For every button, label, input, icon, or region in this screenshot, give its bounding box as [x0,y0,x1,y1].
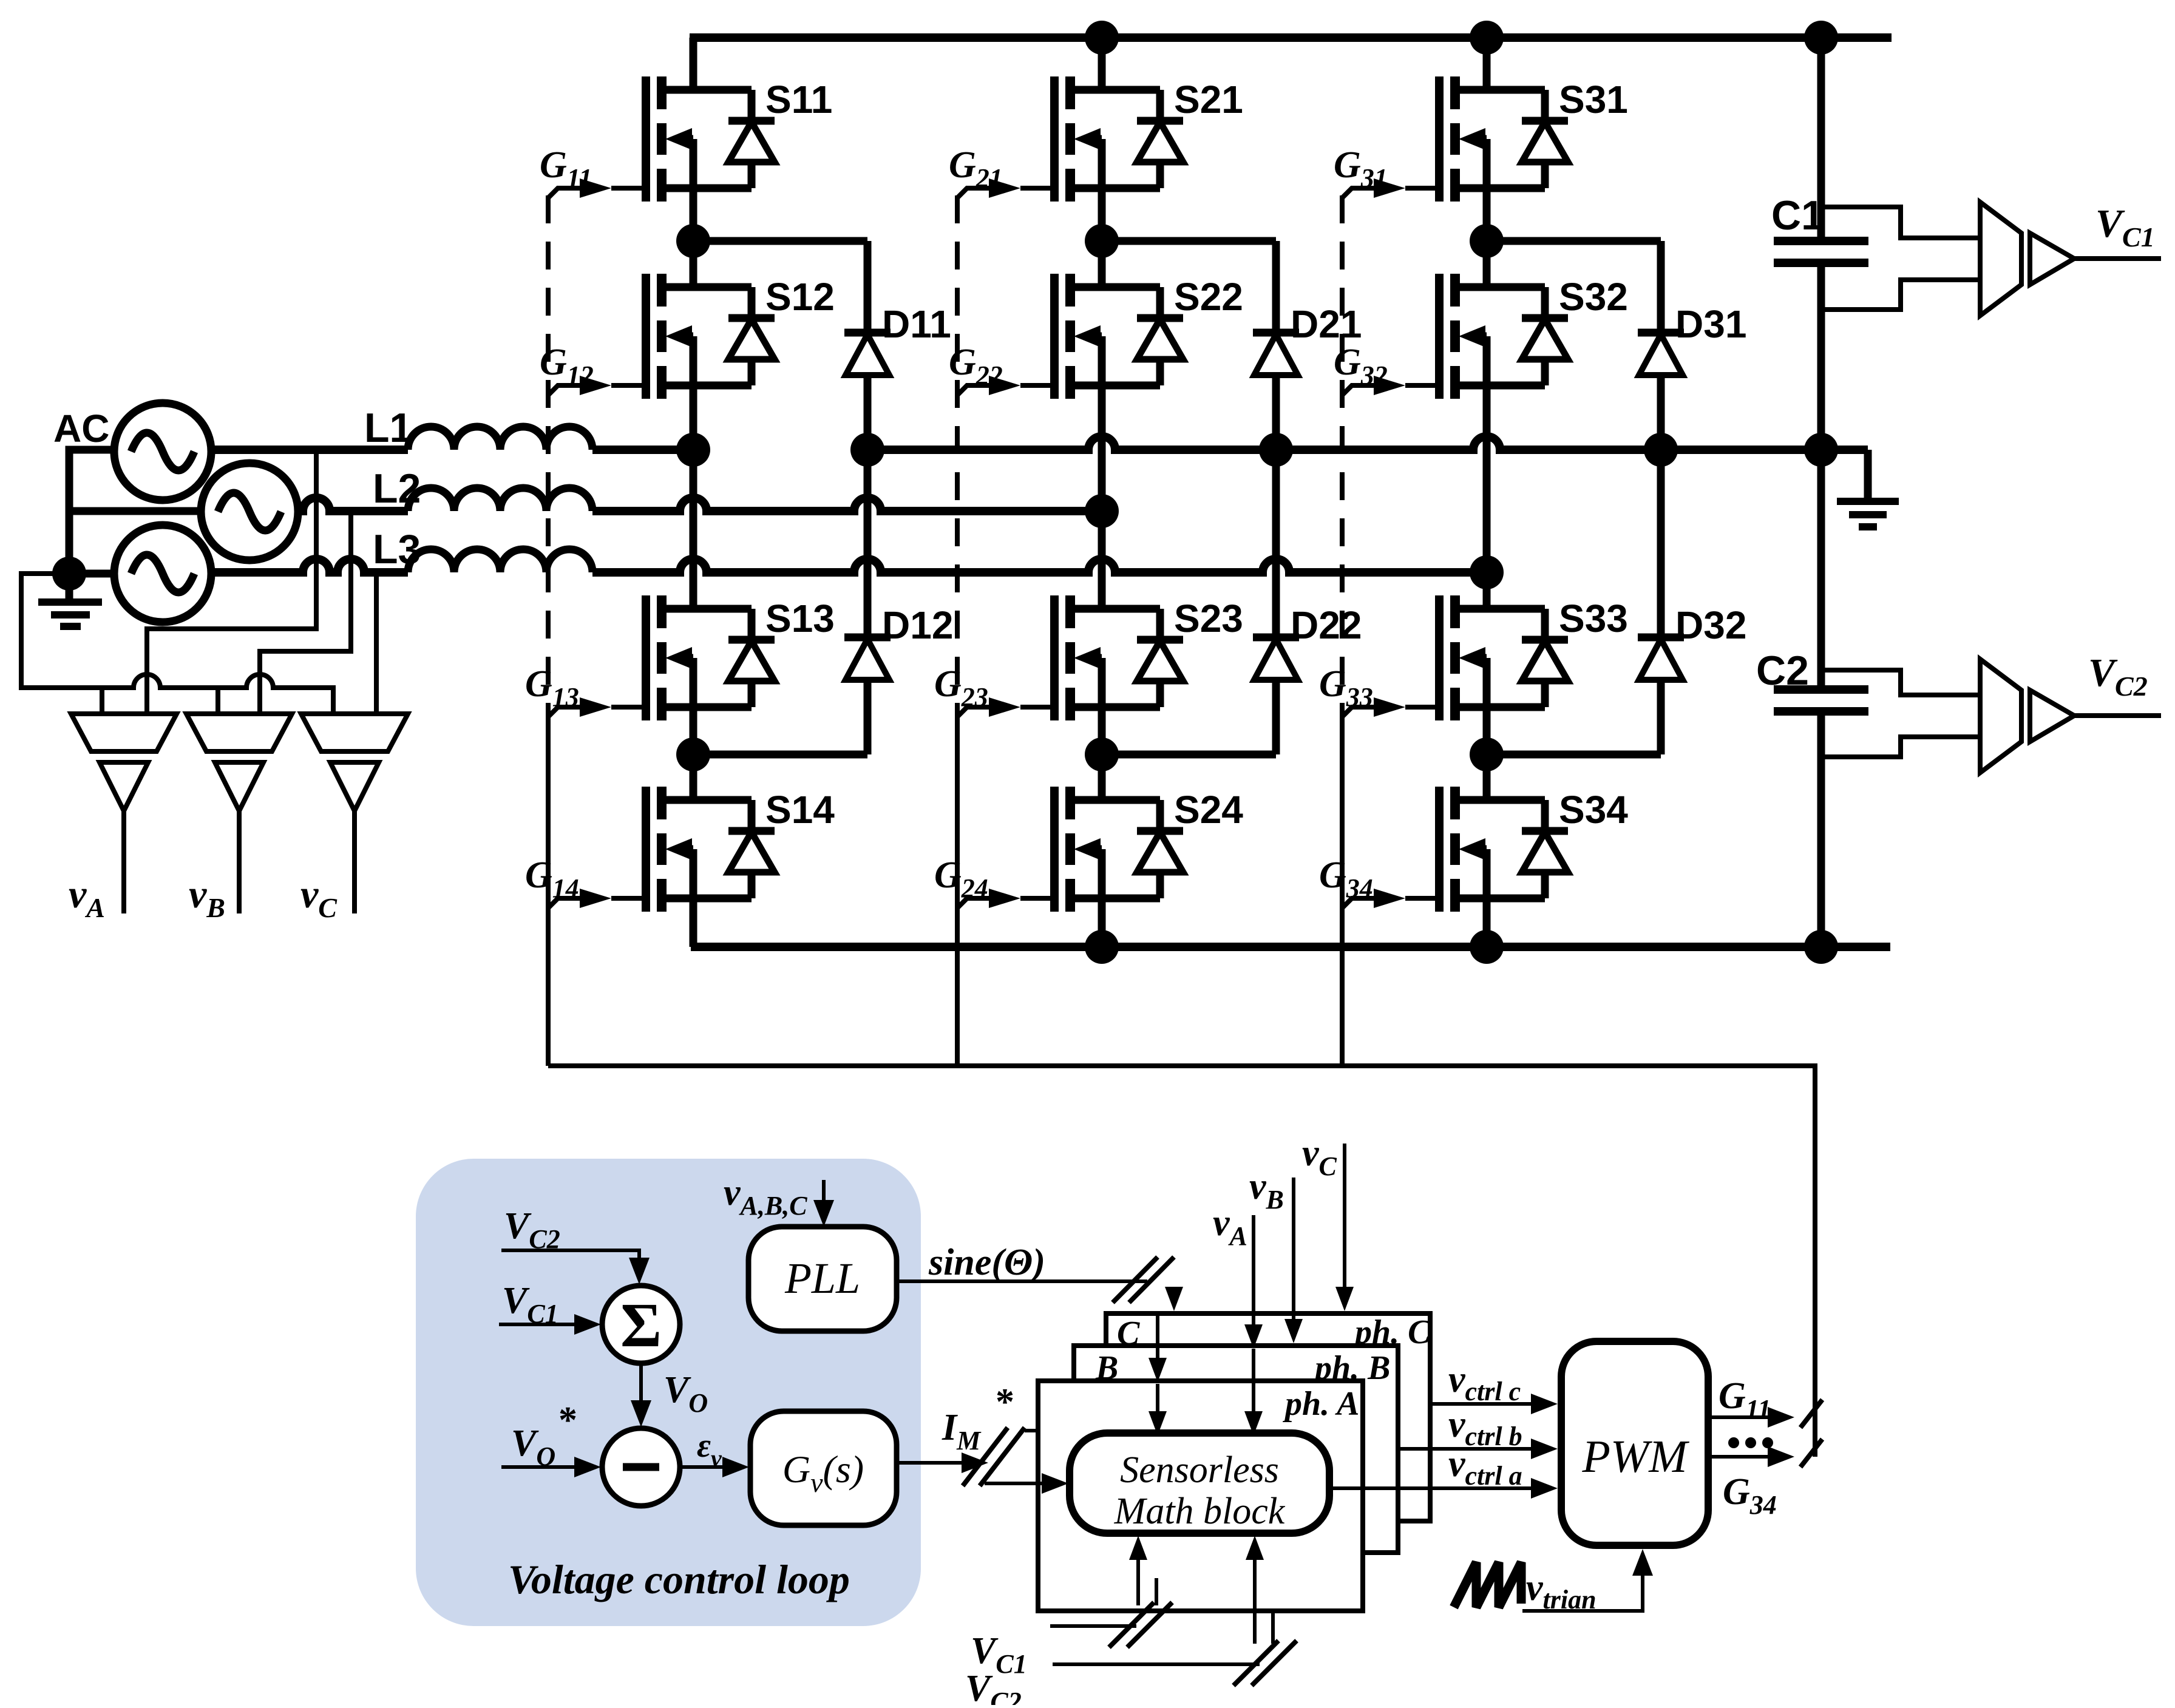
wire leg 1 vertical [690,38,697,947]
wire VC2 output [2074,713,2161,718]
wire gate drive G24 [957,898,995,908]
transistor S32 [1439,274,1568,399]
node C leg bottom bus [1804,930,1838,964]
node leg 3 top bus [1470,21,1504,55]
wire VC1 output [2074,256,2161,261]
wire IM into Sensorless block [985,1482,1045,1485]
svg-text:S24: S24 [1174,788,1243,832]
label dots [1728,1437,1739,1448]
diode D12 [844,637,891,680]
block phase C frame [1106,1313,1430,1521]
wire neutral sense line [21,574,333,714]
svg-text:Sensorless: Sensorless [1120,1449,1279,1491]
svg-text:C2: C2 [1756,648,1809,694]
wire sum to subtractor (VO) [639,1363,643,1401]
svg-text:D21: D21 [1291,302,1362,346]
wire bottom DC bus [691,943,1890,951]
wire gate bundle G1x (dashed) [546,195,551,707]
wire vB [1292,1178,1295,1324]
wire gate drive G21 [957,188,995,198]
wire DC midpoint rail [867,436,1868,450]
wire gate drive G32 [1342,385,1380,395]
voltage control loop shaded box [416,1159,921,1626]
block phase B frame [1074,1346,1398,1553]
svg-text:S34: S34 [1559,788,1628,832]
wire VC1 feed [1050,1624,1136,1628]
wire gate drive G11 [548,188,586,198]
svg-text:S23: S23 [1174,597,1243,640]
node leg 2 top bus [1085,21,1119,55]
wire vC [1343,1144,1346,1293]
buffer VC1 [2030,233,2074,285]
svg-text:S32: S32 [1559,275,1628,319]
wire gate drive G14 [548,898,586,908]
ground (source neutral) [66,574,73,600]
wire gate drive G22 [957,385,995,395]
node leg 3 lower (S33/S34) [1470,737,1504,771]
buffer phase C [330,762,379,811]
svg-text:AC: AC [53,407,109,450]
ground (DC midpoint) [1837,498,1899,505]
wire gate bundle G1x (solid) [546,707,551,1066]
wire vctrl a [1329,1486,1535,1490]
wire vA sense tap [147,450,316,714]
wire neutral stub to sensor A [100,688,104,714]
node leg 3 upper (S31/S32) [1470,224,1504,258]
transistor S14 [646,787,775,912]
wire VC2 feed [1053,1662,1260,1666]
bus marker VC1 [1109,1602,1172,1647]
svg-text:D31: D31 [1675,302,1746,346]
buffer phase B [215,762,263,811]
summer [602,1286,680,1363]
wire vtrian into PWM [1522,1573,1643,1611]
wire clamp diode leg 2 vertical [1272,241,1280,754]
subtractor [602,1428,680,1506]
block PLL [748,1227,897,1331]
wire midpoint rail to ground [1864,450,1872,499]
node leg 3 bottom bus [1470,930,1504,964]
wire vctrl b [1398,1447,1535,1451]
wire PWM G11 output [1708,1415,1771,1419]
wire sine distribution [1172,1287,1176,1295]
node leg 2 upper (S21/S22) [1085,224,1119,258]
svg-text:S11: S11 [765,78,832,121]
svg-text:sine(Θ): sine(Θ) [928,1242,1045,1283]
wire leg 2 vertical [1098,38,1106,947]
svg-text:*: * [558,1400,577,1441]
wire clamp diode leg 1 vertical [864,241,872,754]
svg-text:S14: S14 [765,788,835,832]
svg-text:S33: S33 [1559,597,1628,640]
wire node to D32 [1487,751,1661,759]
inductor L1 [408,427,592,450]
svg-text:S21: S21 [1174,78,1243,121]
block phase A frame [1038,1381,1363,1611]
wire clamp diode leg 3 vertical [1657,241,1665,754]
svg-text:L1: L1 [364,405,412,451]
wire phase A source to inductor [211,446,408,454]
wire gate bundle G3x (dashed) [1340,195,1345,707]
svg-text:Voltage control loop: Voltage control loop [508,1556,850,1602]
wire vctrl c [1430,1402,1535,1406]
wire gate drive G34 [1342,898,1380,908]
wire vA output [121,811,126,913]
AC source VA [114,403,211,500]
wire vB output [237,811,242,913]
svg-text:D12: D12 [882,603,953,647]
wire leg 3 vertical [1483,38,1491,947]
wire C sense taps VC1 [1824,207,1978,238]
bus marker IM [963,1428,1025,1486]
wire VC1 to sum [499,1323,577,1326]
AC source VC [114,525,211,622]
wire IM* to math blocks [897,1461,965,1465]
wire phase C rail (inductor L3 to leg 3, hops) [592,559,1487,572]
wire sine distribution into layers [1156,1313,1159,1366]
capacitor C1 [1774,38,1868,450]
wire gate feedback bus [548,1066,1815,1457]
transistor S34 [1439,787,1568,912]
svg-text:D32: D32 [1675,603,1746,647]
transistor S31 [1439,76,1568,202]
wire vA [1252,1215,1255,1329]
transistor S21 [1054,76,1183,202]
diode D32 [1638,637,1684,680]
AC source VB [201,463,298,560]
wire vC output [352,811,357,913]
svg-text:S12: S12 [765,275,835,319]
wire phase A rail (inductor L1 to leg 1) [592,446,693,454]
svg-text:S13: S13 [765,597,835,640]
wire node to D22 [1102,751,1276,759]
wire gate drive G13 [548,707,586,717]
wire gate bundle G2x (solid) [955,707,960,1066]
node leg 1 upper (S11/S12) [676,224,710,258]
bus marker VC2 [1233,1641,1297,1686]
wire PWM G34 output [1708,1455,1771,1459]
wire gate drive G33 [1342,707,1380,717]
wire node to D21 [1102,237,1276,245]
transistor S24 [1054,787,1183,912]
svg-text:ph. A: ph. A [1283,1385,1359,1423]
wire VC2 to sum [501,1250,639,1260]
diode D31 [1638,333,1684,375]
wire node to D11 [693,237,867,245]
node C midpoint [1804,433,1838,467]
sawtooth carrier symbol [1454,1562,1521,1607]
transistor S22 [1054,274,1183,399]
diode D21 [1253,333,1299,375]
svg-text:C1: C1 [1771,192,1824,239]
wire vB sense tap [260,511,351,714]
wire gate drive G23 [957,707,995,717]
wire top DC bus [690,33,1892,42]
wire phase B source to inductor (hops over vA tap) [298,498,408,511]
wire gate bundle G3x (solid) [1340,707,1345,1066]
svg-text:PLL: PLL [784,1254,860,1303]
buffer phase A [100,762,148,811]
svg-text:L2: L2 [373,466,421,512]
svg-text:D11: D11 [882,302,951,346]
node clamp leg 1 to midpoint rail [850,433,884,467]
svg-text:*: * [996,1381,1014,1423]
wire VO* to subtractor [501,1465,577,1469]
wire neutral stub to sensor B [215,688,220,714]
svg-text:PWM: PWM [1581,1431,1689,1482]
inductor L2 [408,488,592,511]
node leg 1 lower (S13/S14) [676,737,710,771]
wire vABC into PLL [822,1180,826,1203]
wire subtractor to Gv [680,1465,726,1469]
transistor S12 [646,274,775,399]
capacitor C2 [1774,450,1868,947]
node phase 3 to leg [1470,555,1504,589]
wire vC sense tap [374,572,379,714]
wire gate drive G31 [1342,188,1380,198]
svg-text:Σ: Σ [620,1290,662,1360]
wire sine to math blocks [897,1279,1147,1283]
bus marker sine [1113,1257,1174,1303]
diode D11 [844,333,891,375]
transistor S13 [646,595,775,720]
wire gate bundle G2x (dashed) [955,195,960,707]
node leg 2 bottom bus [1085,930,1119,964]
transistor S23 [1054,595,1183,720]
transistor S11 [646,76,775,202]
wire C sense taps VC2 [1824,670,1978,695]
transistor S33 [1439,595,1568,720]
wire gate drive G12 [548,385,586,395]
wire node to D31 [1487,237,1661,245]
block Sensorless Math block [1070,1433,1329,1533]
voltage sensor phase C (attenuator) [301,714,408,751]
svg-text:S22: S22 [1174,275,1243,319]
svg-text:S31: S31 [1559,78,1628,121]
diode D22 [1253,637,1299,680]
svg-text:Math block: Math block [1114,1491,1286,1532]
node phase 1 to leg [676,433,710,467]
node phase 2 to leg [1085,494,1119,528]
wire phase B rail (inductor L2 to leg 2, hops legs/diodes) [592,498,1102,511]
block Gv(s) [750,1411,897,1525]
node leg 2 lower (S23/S24) [1085,737,1119,771]
isolation amplifier VC2 [1980,659,2021,773]
node neutral junction [52,557,86,591]
isolation amplifier VC1 [1980,202,2021,316]
wire node to D12 [693,751,867,759]
buffer VC2 [2030,690,2074,742]
voltage sensor phase B (attenuator) [186,714,292,751]
node C leg top bus [1804,21,1838,55]
svg-text:D22: D22 [1291,603,1362,647]
block PWM [1561,1341,1708,1545]
node clamp leg 2 to midpoint rail [1259,433,1293,467]
inductor L3 [408,549,592,572]
wire phase C source to inductor (hops over vA,vB taps) [211,559,408,572]
svg-text:L3: L3 [373,526,421,572]
voltage sensor phase A (attenuator) [71,714,177,751]
node clamp leg 3 to midpoint rail [1644,433,1678,467]
svg-text:Gv(s): Gv(s) [782,1448,864,1498]
wire source interconnect left [69,450,201,574]
